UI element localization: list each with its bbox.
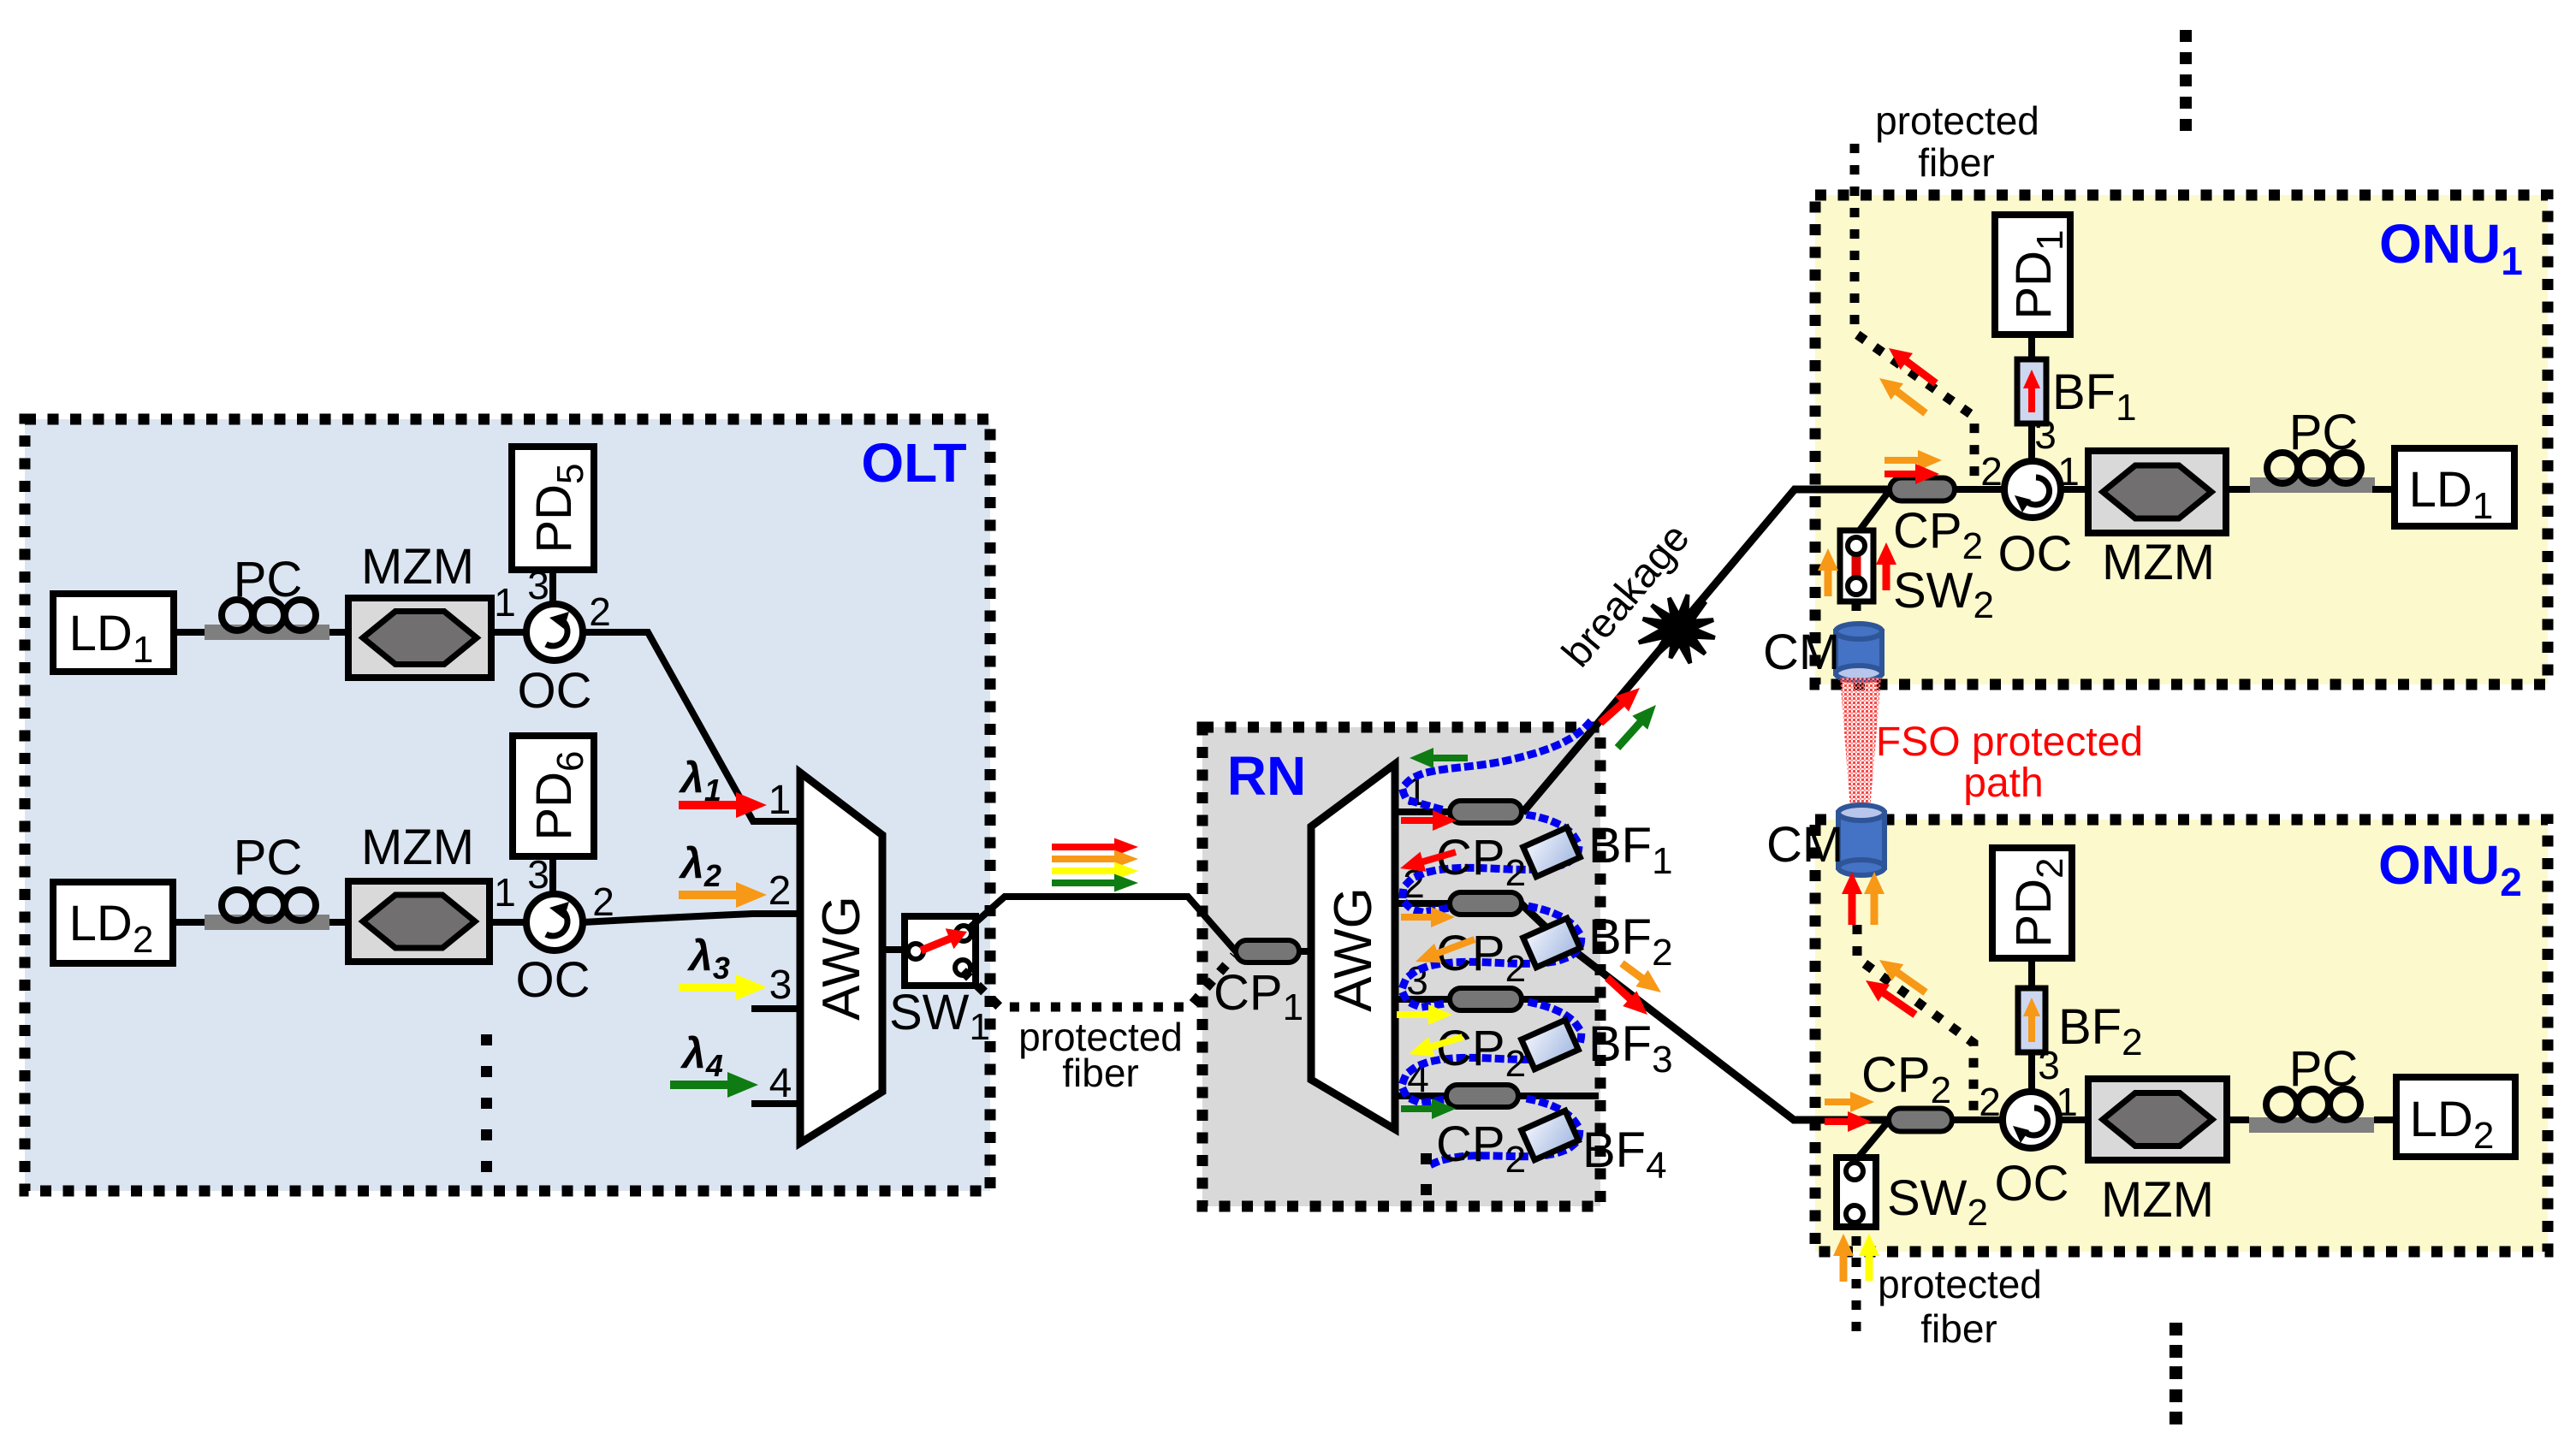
circulator OC (ONU2): [2003, 1092, 2059, 1148]
svg-text:BF4: BF4: [1582, 1122, 1667, 1187]
red actuation arrow in SW1: [919, 928, 967, 954]
svg-text:BF3: BF3: [1588, 1016, 1673, 1081]
distribution fiber RN to ONU2: [1521, 903, 1889, 1120]
collimator CM (ONU1): [1836, 631, 1882, 673]
ellipsis in RN: [1421, 1153, 1432, 1164]
wire LD2 to MZM: [172, 919, 348, 926]
orange downstream arrow port2: [1401, 907, 1455, 927]
wire PC to LD1 (ONU1): [2372, 486, 2395, 493]
coupler CP1: [1236, 940, 1299, 962]
svg-text:OC: OC: [1995, 1156, 2069, 1211]
orange up arrow below CM (ONU2): [1864, 872, 1885, 925]
blue protection weave port3: [1403, 1003, 1581, 1103]
wire OC1 to PD5: [549, 570, 556, 604]
svg-text:RN: RN: [1227, 745, 1306, 807]
orange arrow into ONU1: [1885, 450, 1942, 471]
modulator MZM (OLT row2): [348, 881, 490, 962]
svg-text:OLT: OLT: [861, 432, 966, 494]
photodiode PD5: [512, 447, 594, 570]
red arrow on ONU1 feeder: [1598, 688, 1640, 725]
red downstream arrow port1: [1401, 810, 1457, 831]
svg-text:FSO protected: FSO protected: [1876, 720, 2143, 765]
wire OC1 to AWG port1: [583, 632, 800, 821]
FSO beam: [1840, 678, 1881, 820]
photodiode PD6: [513, 736, 594, 856]
laser diode LD2: [53, 882, 173, 963]
orange arrow on ONU2 feeder: [1619, 960, 1661, 992]
svg-text:1: 1: [769, 778, 792, 823]
orange upstream arrow port2: [1416, 936, 1475, 962]
protection fiber (dotted) SW1 to CP1: [963, 956, 1234, 1007]
svg-text:2: 2: [1980, 449, 2003, 494]
band filter BF3 (RN): [1522, 1020, 1579, 1069]
svg-text:MZM: MZM: [361, 820, 474, 875]
RN region box: [1202, 727, 1600, 1206]
wire PD1 to BF1 (ONU1): [2028, 335, 2035, 359]
laser diode LD1: [53, 594, 174, 672]
protected fiber dotted stub (ONU2 bottom): [1852, 1236, 1861, 1343]
wire OC2 to AWG port2: [583, 914, 800, 922]
wire OC to MZM (ONU2): [2059, 1116, 2088, 1123]
svg-text:BF2: BF2: [1588, 909, 1673, 974]
RN AWG port3 line: [1395, 996, 1599, 1003]
coupler CP2 (RN port3): [1450, 988, 1522, 1010]
svg-text:PC: PC: [234, 830, 303, 885]
bundle arrow green: [1052, 874, 1138, 892]
AWG (OLT): [800, 773, 882, 1143]
svg-text:fiber: fiber: [1920, 1306, 1997, 1351]
wire MZM to PC (ONU1): [2226, 486, 2250, 493]
wire OC to BF1 (ONU1): [2028, 423, 2035, 461]
breakage star: [1666, 616, 1692, 642]
stub AWG port4: [751, 1100, 800, 1107]
svg-text:OC: OC: [516, 952, 591, 1008]
svg-text:BF1: BF1: [1588, 818, 1673, 882]
working fiber OLT to CP1: [967, 897, 1236, 951]
switch SW2 (ONU1): [1840, 530, 1873, 601]
switch SW2 (ONU2): [1837, 1158, 1876, 1227]
red arrow on ONU2 dotted fiber: [1866, 980, 1918, 1018]
band filter BF2 (ONU2): [2018, 988, 2045, 1052]
wire MZM to OC: [491, 629, 526, 636]
wire SW2 to CP2 (ONU1): [1856, 490, 1890, 535]
protected fiber dotted drop (ONU1): [1855, 144, 1974, 484]
coupler CP2 (RN port1): [1450, 801, 1522, 823]
RN AWG port4 line: [1395, 1093, 1599, 1099]
wire CP2 to OC (ONU1): [1955, 486, 2004, 493]
wire AWG to SW1: [882, 946, 905, 953]
RN AWG port1 line: [1395, 808, 1450, 815]
ellipsis top right: [2180, 30, 2192, 42]
blue protection weave port4: [1427, 1099, 1580, 1167]
svg-text:protected: protected: [1878, 1262, 2042, 1306]
svg-text:2: 2: [592, 879, 614, 924]
arrow lambda3: [679, 974, 767, 1000]
arrow lambda4: [670, 1072, 758, 1098]
collimator CM (ONU2): [1838, 813, 1885, 868]
distribution fiber RN to ONU1: [1522, 489, 1890, 813]
wire OC to BF2 (ONU2): [2028, 1052, 2035, 1092]
arrow lambda1: [679, 792, 767, 818]
svg-text:fiber: fiber: [1062, 1051, 1138, 1095]
svg-text:AWG: AWG: [1324, 887, 1383, 1012]
wire CP1 to RN AWG: [1298, 948, 1313, 955]
svg-text:PC: PC: [2289, 405, 2359, 460]
orange up arrow left of SW2 (ONU1): [1818, 548, 1838, 596]
band filter BF1 (ONU1): [2017, 359, 2046, 423]
svg-text:PC: PC: [234, 552, 303, 607]
protected fiber dotted drop (ONU2): [1857, 925, 1974, 1116]
svg-text:4: 4: [769, 1061, 792, 1106]
red arrow on ONU1 dotted fiber: [1889, 348, 1938, 387]
laser diode LD1 (ONU1): [2395, 448, 2514, 526]
circulator OC (OLT row1): [526, 604, 583, 660]
svg-text:1: 1: [494, 870, 516, 915]
yellow up arrow below SW2 (ONU2): [1859, 1234, 1879, 1281]
svg-text:3: 3: [769, 962, 792, 1008]
svg-text:OC: OC: [1998, 526, 2073, 582]
svg-text:MZM: MZM: [2101, 1172, 2214, 1228]
photodiode PD1: [1995, 215, 2070, 335]
wire OC2 to PD6: [549, 856, 556, 894]
modulator MZM (ONU1): [2088, 451, 2226, 533]
laser diode LD2 (ONU2): [2396, 1077, 2515, 1157]
svg-text:CM: CM: [1766, 817, 1843, 873]
ONU1 region box: [1815, 195, 2548, 684]
ellipsis in OLT: [481, 1034, 492, 1045]
svg-text:3: 3: [527, 563, 549, 607]
bundle arrow red: [1052, 838, 1138, 856]
coupler CP2 (RN port2): [1450, 892, 1522, 915]
wire PD2 to BF2 (ONU2): [2028, 958, 2035, 988]
coupler CP2 (ONU2): [1889, 1109, 1952, 1132]
orange arrow on ONU1 dotted fiber: [1879, 378, 1928, 417]
band filter BF2 (RN): [1523, 918, 1581, 967]
bundle arrow yellow: [1052, 862, 1138, 880]
ellipsis bottom right: [2169, 1323, 2182, 1335]
modulator MZM (OLT row1): [348, 598, 491, 678]
polarization controller PC (ONU2): [2249, 1117, 2374, 1133]
yellow downstream arrow port3: [1397, 1004, 1452, 1025]
ONU2 region box: [1815, 820, 2548, 1252]
wire LD1 to MZM: [174, 629, 348, 636]
modulator MZM (ONU2): [2088, 1079, 2227, 1160]
red arrow into ONU1: [1885, 464, 1939, 484]
blue protection weave port1: [1403, 724, 1588, 912]
orange arrow on ONU2 dotted fiber: [1879, 960, 1928, 996]
RN AWG port2 line: [1395, 900, 1450, 907]
polarization controller PC (OLT row1): [205, 625, 329, 640]
wire MZM to PC (ONU2): [2227, 1116, 2249, 1123]
wire SW2 to CP2 (ONU2): [1855, 1121, 1889, 1162]
red up arrow below CM (ONU2): [1842, 872, 1862, 925]
bundle arrow orange: [1052, 850, 1138, 868]
band filter BF4 (RN): [1522, 1110, 1579, 1159]
green downstream arrow port4: [1401, 1099, 1456, 1119]
polarization controller PC (OLT row2): [205, 915, 329, 930]
svg-text:2: 2: [1979, 1080, 2001, 1124]
polarization controller PC (ONU1): [2250, 477, 2375, 493]
red arrow on ONU2 feeder: [1605, 975, 1647, 1015]
svg-text:3: 3: [527, 852, 549, 897]
arrow lambda2: [679, 882, 767, 908]
stub AWG port3: [751, 1005, 800, 1012]
coupler CP2 (RN port4): [1446, 1085, 1518, 1107]
svg-text:path: path: [1963, 761, 2043, 806]
band filter BF1 (RN): [1523, 827, 1581, 876]
svg-text:2: 2: [769, 868, 792, 914]
AWG (RN): [1311, 764, 1395, 1129]
dotted link SW2 to CM (ONU1): [1852, 601, 1861, 625]
svg-text:AWG: AWG: [812, 896, 871, 1021]
green upstream arrow (RN top): [1410, 748, 1468, 768]
svg-text:MZM: MZM: [361, 539, 474, 595]
red upstream arrow port1: [1400, 849, 1457, 872]
red up arrow right of SW2 (ONU1): [1876, 542, 1896, 590]
svg-text:2: 2: [589, 589, 611, 634]
wire MZM to OC2: [490, 919, 526, 926]
svg-text:OC: OC: [518, 663, 592, 719]
blue protection weave port2: [1403, 907, 1581, 1007]
wire CP2 to OC (ONU2): [1952, 1116, 2003, 1123]
switch SW1: [905, 916, 976, 986]
orange up arrow below SW2 (ONU2): [1833, 1234, 1854, 1282]
svg-text:PC: PC: [2289, 1041, 2359, 1097]
circulator OC (ONU1): [2004, 461, 2061, 518]
orange arrow into ONU2: [1825, 1092, 1874, 1112]
OLT region box: [25, 419, 990, 1191]
photodiode PD2: [1992, 848, 2072, 958]
svg-text:1: 1: [494, 580, 516, 625]
wire OC to MZM (ONU1): [2061, 486, 2088, 493]
wire PC to LD2 (ONU2): [2374, 1116, 2396, 1123]
svg-text:CM: CM: [1763, 625, 1840, 680]
yellow upstream arrow port3: [1409, 1033, 1463, 1057]
red arrow into ONU2: [1825, 1111, 1872, 1132]
svg-text:MZM: MZM: [2102, 535, 2215, 590]
circulator OC (OLT row2): [526, 894, 583, 951]
green arrow on ONU1 feeder: [1615, 705, 1656, 750]
svg-text:protected: protected: [1875, 98, 2039, 143]
svg-text:fiber: fiber: [1918, 140, 1994, 185]
coupler CP2 (ONU1): [1890, 478, 1955, 501]
